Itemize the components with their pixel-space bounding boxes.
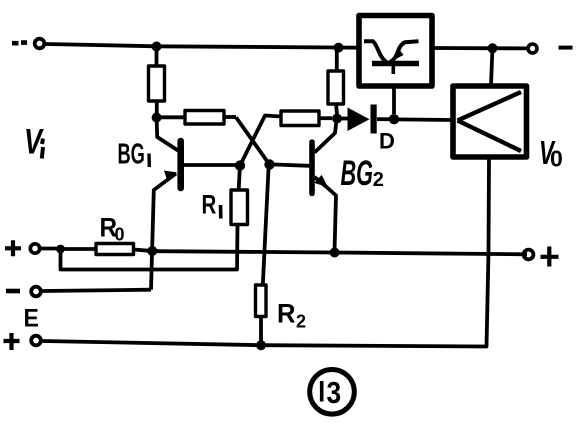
svg-text:BG: BG: [341, 155, 374, 193]
svg-text:0: 0: [550, 146, 563, 172]
svg-text:R: R: [202, 190, 217, 220]
svg-text:3: 3: [327, 376, 342, 410]
svg-text:0: 0: [115, 225, 125, 245]
svg-text:E: E: [24, 305, 39, 333]
svg-text:D: D: [379, 129, 395, 154]
svg-text:BG: BG: [118, 138, 145, 170]
svg-text:2: 2: [373, 169, 384, 191]
svg-text:2: 2: [296, 312, 306, 332]
svg-text:R: R: [277, 298, 296, 329]
